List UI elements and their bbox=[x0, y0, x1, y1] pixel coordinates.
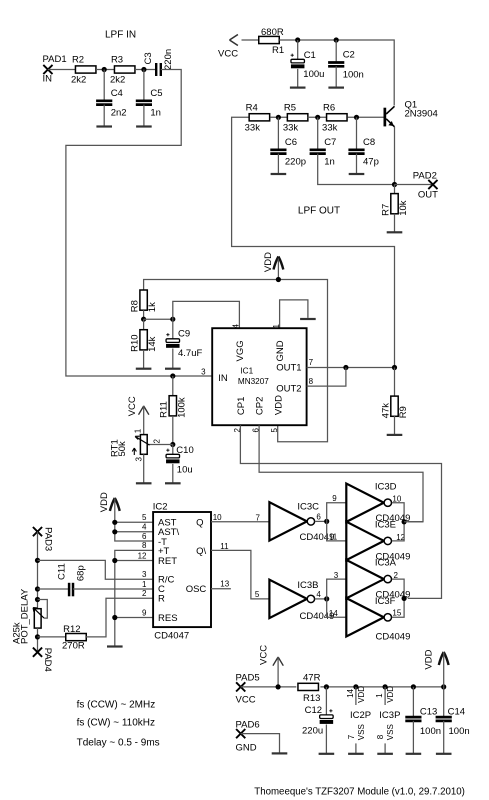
trimmer RT1 50k bbox=[109, 428, 161, 461]
svg-text:IN: IN bbox=[43, 74, 53, 85]
svg-text:IC3D: IC3D bbox=[375, 482, 397, 493]
svg-text:VDD: VDD bbox=[386, 686, 395, 703]
transistor Q1 2N3904 bbox=[384, 100, 438, 127]
svg-text:7: 7 bbox=[347, 734, 356, 739]
op-amp IC1 MN3207 body bbox=[212, 328, 306, 425]
wire pin 5 AST bbox=[115, 521, 153, 523]
wire RT1 wiper to junction bbox=[149, 444, 173, 446]
node IC3B out junction bbox=[324, 596, 329, 601]
wire junction to C2 bbox=[335, 40, 337, 63]
wire VCC to RT1 bbox=[143, 406, 145, 435]
node wiper loop junction bbox=[35, 597, 40, 602]
wire VDD arrow stub bottom bbox=[443, 652, 445, 687]
ground PAD6 bbox=[272, 752, 288, 754]
node R12 junction bbox=[35, 634, 40, 639]
ground C5 bbox=[136, 125, 152, 127]
svg-text:3: 3 bbox=[334, 571, 339, 580]
node C9 top junction bbox=[170, 317, 175, 322]
svg-text:R10: R10 bbox=[130, 334, 141, 351]
svg-text:R4: R4 bbox=[246, 103, 258, 114]
node R11/RT1 wiper/C10 bbox=[170, 442, 175, 447]
svg-text:OUT2: OUT2 bbox=[276, 384, 301, 395]
wire PAD3 down chain bbox=[37, 532, 39, 609]
resistor R12 bbox=[62, 624, 86, 652]
wire pot to PAD4 bbox=[37, 628, 39, 652]
power pins IC2P bbox=[346, 686, 371, 754]
inverter IC3B bbox=[269, 580, 334, 622]
svg-text:2k2: 2k2 bbox=[71, 75, 86, 86]
capacitor C3 bbox=[143, 49, 174, 76]
wire C1 to ground bbox=[297, 69, 299, 88]
svg-text:VSS: VSS bbox=[357, 724, 366, 740]
svg-text:14: 14 bbox=[329, 609, 338, 618]
resistor R2 bbox=[71, 55, 96, 86]
capacitor C12 bbox=[302, 705, 333, 737]
ground C1 bbox=[290, 86, 306, 88]
wire R10 to ground bbox=[143, 350, 145, 369]
svg-text:VDD: VDD bbox=[357, 686, 366, 703]
ground C9 bbox=[165, 368, 181, 370]
op-amp IC2 CD4047 body bbox=[153, 501, 211, 641]
svg-text:IC2P: IC2P bbox=[350, 710, 371, 721]
wire IC3E out bbox=[392, 522, 404, 541]
capacitor C2 bbox=[328, 50, 364, 81]
node pin5 bbox=[112, 520, 117, 525]
wire GND pin1 to ground bbox=[280, 300, 308, 328]
svg-text:IN: IN bbox=[218, 373, 228, 384]
node IC3A/IC3F out tie bbox=[402, 596, 407, 601]
wire VDD to pins 5 4 6 bbox=[115, 498, 153, 541]
svg-text:7: 7 bbox=[309, 358, 314, 367]
node C11 left junction bbox=[35, 586, 40, 591]
power pins IC3P bbox=[375, 686, 400, 754]
svg-text:2n2: 2n2 bbox=[111, 108, 127, 119]
wire Qbar to IC3B bbox=[211, 550, 269, 599]
wire R11 bottom bbox=[172, 416, 174, 445]
resistor R6 bbox=[322, 103, 347, 134]
svg-text:fs (CW) ~ 110kHz: fs (CW) ~ 110kHz bbox=[77, 717, 155, 728]
wire node to R7 bbox=[394, 185, 396, 194]
resistor R3 bbox=[110, 55, 135, 86]
wire C6 to ground bbox=[277, 154, 279, 174]
node IC3D/IC3E out tie bbox=[402, 519, 407, 524]
svg-text:GND: GND bbox=[236, 742, 257, 753]
svg-text:R1: R1 bbox=[272, 45, 284, 56]
wire C9 to ground bbox=[172, 349, 174, 369]
svg-text:47R: 47R bbox=[303, 673, 321, 684]
wire R9 to ground bbox=[394, 416, 396, 435]
svg-text:IC3P: IC3P bbox=[379, 710, 400, 721]
wire C3 to IC1 IN bbox=[66, 70, 212, 377]
svg-text:IC3F: IC3F bbox=[375, 596, 396, 607]
wire VCC to R1 bbox=[242, 39, 259, 41]
node C1 junction bbox=[295, 37, 300, 42]
svg-text:8: 8 bbox=[142, 541, 147, 550]
ground R10 bbox=[136, 368, 152, 370]
svg-text:68p: 68p bbox=[75, 565, 86, 581]
wire R3 to C3 bbox=[135, 69, 156, 71]
svg-text:9: 9 bbox=[332, 494, 337, 503]
wire junction to C1 bbox=[297, 40, 299, 59]
power VCC arrow top bbox=[218, 35, 238, 60]
wire to IC3D input bbox=[327, 503, 347, 522]
svg-text:33k: 33k bbox=[245, 122, 261, 133]
svg-text:POT_DELAY: POT_DELAY bbox=[20, 588, 31, 644]
svg-text:PAD1: PAD1 bbox=[43, 54, 67, 65]
resistor R1 bbox=[259, 27, 284, 56]
svg-text:VDD: VDD bbox=[273, 395, 284, 415]
svg-text:220n: 220n bbox=[163, 49, 174, 70]
wire C14 to ground bbox=[443, 721, 445, 754]
svg-text:VDD: VDD bbox=[263, 252, 274, 272]
svg-text:8: 8 bbox=[309, 377, 314, 386]
wire C13 stub bbox=[412, 687, 414, 717]
svg-text:100u: 100u bbox=[303, 69, 324, 80]
svg-text:IC3B: IC3B bbox=[297, 580, 318, 591]
wire pin 12 RET bbox=[115, 560, 153, 562]
svg-text:R11: R11 bbox=[159, 401, 170, 418]
ground R9 bbox=[387, 434, 403, 436]
svg-text:OSC: OSC bbox=[186, 584, 207, 595]
wire to IC3A input bbox=[327, 579, 347, 599]
wire Q1 emitter to output node bbox=[394, 127, 396, 185]
wire IC3F out bbox=[392, 598, 404, 617]
svg-text:4: 4 bbox=[142, 523, 147, 532]
svg-text:33k: 33k bbox=[322, 122, 338, 133]
capacitor C7 bbox=[310, 137, 337, 168]
inverter IC3E bbox=[346, 519, 410, 562]
node emitter/R7/PAD2 bbox=[392, 182, 397, 187]
wire junction to C4 bbox=[103, 70, 105, 101]
resistor R10 bbox=[130, 330, 159, 352]
node R3/C3/C5 junction bbox=[141, 67, 146, 72]
svg-text:47p: 47p bbox=[363, 157, 379, 168]
svg-text:4: 4 bbox=[232, 324, 241, 329]
svg-text:47k: 47k bbox=[380, 403, 391, 419]
wire VCC arrow stub bbox=[277, 657, 279, 687]
svg-text:C5: C5 bbox=[150, 88, 162, 99]
svg-text:C4: C4 bbox=[111, 88, 123, 99]
svg-text:10: 10 bbox=[213, 513, 222, 522]
inverter IC3D bbox=[346, 482, 410, 524]
wire R12 left bbox=[38, 636, 67, 638]
wire C4 to ground bbox=[103, 105, 105, 127]
svg-text:220u: 220u bbox=[302, 726, 323, 737]
svg-text:C1: C1 bbox=[304, 50, 316, 61]
wire pins 8 12 9 to ground bbox=[115, 550, 153, 646]
wire C11 left bbox=[38, 588, 69, 590]
wire OUT1 row bbox=[307, 367, 395, 369]
power VDD arrow IC1 bbox=[263, 252, 283, 272]
svg-text:11: 11 bbox=[220, 542, 229, 551]
svg-text:8: 8 bbox=[376, 734, 385, 739]
svg-text:2: 2 bbox=[153, 439, 162, 444]
svg-text:MN3207: MN3207 bbox=[238, 377, 269, 386]
svg-text:C7: C7 bbox=[324, 137, 336, 148]
svg-text:14k: 14k bbox=[147, 336, 158, 352]
node OUT to R9 bbox=[392, 365, 397, 370]
wire C12 to ground bbox=[325, 725, 327, 754]
svg-text:3: 3 bbox=[134, 457, 143, 462]
svg-text:2k2: 2k2 bbox=[110, 75, 125, 86]
inverter IC3A bbox=[346, 558, 410, 601]
svg-text:3: 3 bbox=[201, 368, 206, 377]
capacitor C8 bbox=[348, 137, 378, 168]
resistor R7 bbox=[380, 194, 409, 216]
ground C12 bbox=[319, 753, 335, 755]
svg-text:R6: R6 bbox=[323, 103, 335, 114]
svg-text:Q\: Q\ bbox=[196, 546, 206, 557]
svg-text:2N3904: 2N3904 bbox=[405, 109, 438, 120]
ground C6 bbox=[271, 173, 287, 175]
svg-text:100n: 100n bbox=[343, 69, 364, 80]
wire C14 stub bbox=[443, 687, 445, 717]
svg-text:CP2: CP2 bbox=[255, 397, 266, 415]
wire C2 to ground bbox=[335, 66, 337, 87]
svg-text:VCC: VCC bbox=[127, 396, 138, 416]
node pin12 bbox=[112, 558, 117, 563]
svg-text:IC2: IC2 bbox=[153, 501, 168, 512]
wire tie to CP2 bbox=[404, 521, 423, 523]
ground IC2 pins bbox=[107, 645, 123, 647]
node PAD5/VCC bbox=[276, 684, 281, 689]
svg-text:14: 14 bbox=[346, 688, 355, 697]
wire OSC stub pin 13 bbox=[211, 588, 231, 590]
svg-text:R8: R8 bbox=[130, 300, 141, 312]
ground IC3P bbox=[377, 753, 393, 755]
capacitor C5 bbox=[136, 88, 163, 119]
svg-text:100n: 100n bbox=[420, 726, 441, 737]
svg-text:PAD4: PAD4 bbox=[42, 648, 53, 672]
pad PAD4 bbox=[33, 648, 53, 672]
svg-text:220p: 220p bbox=[285, 157, 306, 168]
svg-text:IC3C: IC3C bbox=[297, 502, 319, 513]
svg-text:CD4049: CD4049 bbox=[376, 631, 411, 642]
wire PAD6 to ground bbox=[241, 734, 280, 754]
wire junction row bbox=[144, 318, 173, 320]
pad PAD2 bbox=[413, 170, 438, 200]
power VCC arrow PAD5 bbox=[259, 645, 284, 666]
node C13 bbox=[411, 684, 416, 689]
svg-text:VGG: VGG bbox=[235, 340, 246, 361]
wire C10 to ground bbox=[172, 464, 174, 483]
capacitor C4 bbox=[96, 88, 126, 119]
svg-text:R13: R13 bbox=[303, 693, 320, 704]
wire Q to IC3C bbox=[211, 521, 269, 523]
inverter IC3F bbox=[346, 596, 410, 643]
svg-text:RES: RES bbox=[158, 613, 178, 624]
pad PAD6 bbox=[236, 719, 260, 753]
svg-text:IC3E: IC3E bbox=[375, 519, 396, 530]
resistor R4 bbox=[245, 103, 270, 134]
wire VGG pin4 to C9 junction bbox=[173, 301, 240, 328]
wire junction to R10 bbox=[143, 319, 145, 330]
svg-text:5: 5 bbox=[255, 590, 260, 599]
wire R5 to R6 bbox=[308, 116, 327, 118]
power VCC arrow RT1 bbox=[127, 396, 149, 416]
wire C5 to ground bbox=[143, 105, 145, 127]
wire C13 to ground bbox=[412, 721, 414, 754]
wire R8 to junction bbox=[143, 310, 145, 319]
svg-text:VCC: VCC bbox=[236, 694, 256, 705]
node C2 junction bbox=[334, 37, 339, 42]
svg-text:6: 6 bbox=[142, 532, 147, 541]
wire junction to C8 bbox=[356, 117, 358, 150]
ground IC1 pin1 bbox=[300, 318, 316, 320]
svg-text:VSS: VSS bbox=[386, 724, 395, 740]
svg-text:12: 12 bbox=[138, 551, 147, 560]
svg-text:9: 9 bbox=[142, 608, 147, 617]
svg-text:10u: 10u bbox=[177, 465, 193, 476]
svg-text:5: 5 bbox=[142, 513, 147, 522]
svg-text:PAD3: PAD3 bbox=[42, 527, 53, 551]
resistor R8 bbox=[130, 290, 159, 312]
wire C7 down to output node bbox=[318, 154, 395, 185]
node pin9 bbox=[112, 615, 117, 620]
svg-text:1n: 1n bbox=[324, 157, 335, 168]
wire to IC3E input bbox=[327, 521, 347, 541]
wire CP2 net bbox=[259, 425, 423, 522]
svg-text:2: 2 bbox=[142, 589, 147, 598]
svg-text:CD4047: CD4047 bbox=[154, 631, 189, 642]
wire junction to C5 bbox=[143, 70, 145, 101]
svg-text:C12: C12 bbox=[305, 705, 322, 716]
wire PAD5 to R13 bbox=[241, 686, 297, 688]
svg-text:680R: 680R bbox=[261, 27, 284, 38]
svg-text:3: 3 bbox=[142, 570, 147, 579]
svg-text:C9: C9 bbox=[178, 329, 190, 340]
svg-text:5: 5 bbox=[270, 428, 279, 433]
wire junction to C7 bbox=[317, 117, 319, 150]
inverter IC3C bbox=[269, 502, 334, 543]
capacitor C11 bbox=[57, 563, 87, 596]
svg-text:100n: 100n bbox=[449, 726, 470, 737]
resistor R11 bbox=[159, 396, 188, 418]
node pin4 bbox=[112, 529, 117, 534]
wire node to R9 bbox=[394, 368, 396, 397]
wire RT1 to ground bbox=[143, 454, 145, 483]
svg-text:OUT: OUT bbox=[418, 189, 438, 200]
ground IC2P bbox=[348, 753, 364, 755]
svg-text:R12: R12 bbox=[63, 624, 80, 635]
power VDD arrow bottom bbox=[424, 649, 449, 669]
wire VDD rail bottom bbox=[320, 686, 443, 688]
wire pin 4 AST-bar bbox=[115, 531, 153, 533]
svg-text:R5: R5 bbox=[284, 103, 296, 114]
svg-text:1: 1 bbox=[134, 428, 143, 433]
svg-text:1: 1 bbox=[142, 580, 147, 589]
node IC3C out junction bbox=[324, 519, 329, 524]
svg-text:PAD5: PAD5 bbox=[236, 673, 260, 684]
svg-text:IC3A: IC3A bbox=[375, 558, 397, 569]
svg-text:PAD6: PAD6 bbox=[236, 719, 260, 730]
node R/C junction bbox=[35, 558, 40, 563]
svg-text:4.7uF: 4.7uF bbox=[178, 348, 202, 359]
svg-text:1k: 1k bbox=[147, 302, 158, 312]
ground C10 bbox=[165, 482, 181, 484]
wire pin 9 RES bbox=[115, 617, 153, 619]
resistor R9 bbox=[380, 396, 409, 418]
svg-text:10k: 10k bbox=[398, 200, 409, 216]
svg-text:C14: C14 bbox=[448, 706, 465, 717]
svg-text:IC1: IC1 bbox=[240, 367, 253, 376]
node IC2P bbox=[353, 684, 358, 689]
wire R1 to Q1 collector rail bbox=[279, 40, 394, 106]
svg-text:CP1: CP1 bbox=[236, 397, 247, 415]
svg-text:7: 7 bbox=[256, 513, 261, 522]
resistor R5 bbox=[283, 103, 308, 134]
node R5/R6/C7 bbox=[315, 115, 320, 120]
power VDD arrow IC2 bbox=[99, 492, 119, 512]
svg-text:VDD: VDD bbox=[99, 492, 110, 512]
pad PAD5 bbox=[236, 673, 260, 706]
wire junction to C6 bbox=[277, 117, 279, 150]
wire to IC3F input bbox=[327, 599, 347, 617]
wire OUT1 feed to R4 bbox=[232, 117, 395, 367]
ground C13 bbox=[406, 753, 422, 755]
ground C2 bbox=[328, 86, 344, 88]
wire IC3D out bbox=[392, 503, 404, 522]
wire CP1 net bbox=[240, 425, 441, 598]
wire R7 to ground bbox=[394, 214, 396, 233]
svg-text:R3: R3 bbox=[111, 55, 123, 66]
wire C8 to ground bbox=[356, 154, 358, 174]
svg-text:C2: C2 bbox=[343, 50, 355, 61]
capacitor C1 bbox=[291, 50, 325, 80]
svg-text:33k: 33k bbox=[283, 122, 299, 133]
svg-text:LPF OUT: LPF OUT bbox=[298, 206, 340, 217]
svg-text:fs (CCW) ~ 2MHz: fs (CCW) ~ 2MHz bbox=[77, 700, 156, 711]
node C12 bbox=[324, 684, 329, 689]
node IC3P bbox=[383, 684, 388, 689]
potentiometer POT_DELAY A25k bbox=[12, 588, 44, 644]
svg-text:LPF IN: LPF IN bbox=[105, 30, 136, 41]
wire C12 stub bbox=[325, 687, 327, 715]
svg-text:Q: Q bbox=[196, 517, 203, 528]
wire VDD arrow stub bbox=[277, 259, 279, 280]
wire wiper loop bbox=[38, 600, 48, 619]
svg-text:1: 1 bbox=[272, 324, 281, 329]
wire OUT2 row bbox=[307, 368, 346, 387]
node OUT1/OUT2 tie bbox=[343, 365, 348, 370]
wire PAD1 to R2 bbox=[48, 69, 76, 71]
svg-text:OUT1: OUT1 bbox=[276, 363, 301, 374]
svg-text:Thomeeque's TZF3207 Module (v1: Thomeeque's TZF3207 Module (v1.0, 29.7.2… bbox=[254, 786, 465, 797]
svg-text:R2: R2 bbox=[72, 55, 84, 66]
capacitor C6 bbox=[270, 137, 306, 168]
wire junction to C9 bbox=[172, 319, 174, 339]
wire R/C net bbox=[38, 560, 154, 579]
wire VDD rail bbox=[144, 280, 328, 442]
svg-text:C8: C8 bbox=[363, 137, 375, 148]
wire junction to C10 bbox=[172, 445, 174, 455]
ground C8 bbox=[349, 173, 365, 175]
svg-text:50k: 50k bbox=[117, 441, 128, 457]
svg-text:C13: C13 bbox=[420, 706, 437, 717]
svg-text:15: 15 bbox=[392, 609, 401, 618]
wire IC3A out bbox=[392, 579, 404, 598]
pad PAD3 bbox=[33, 527, 53, 551]
svg-text:C3: C3 bbox=[143, 52, 154, 64]
svg-text:4: 4 bbox=[316, 590, 321, 599]
wire R6 to Q1 base bbox=[348, 116, 384, 118]
pad PAD1 bbox=[43, 54, 67, 85]
node C14 bbox=[441, 684, 446, 689]
capacitor C9 bbox=[166, 329, 202, 360]
capacitor C10 bbox=[166, 445, 194, 475]
capacitor C14 bbox=[436, 706, 470, 737]
node R2/R3/C4 junction bbox=[102, 67, 107, 72]
